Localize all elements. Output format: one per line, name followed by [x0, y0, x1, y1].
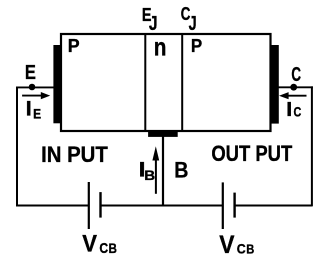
- svg-text:J: J: [189, 12, 197, 35]
- wire: collector lead: [278, 86, 313, 88]
- svg-text:E: E: [25, 60, 36, 83]
- svg-text:B: B: [109, 240, 117, 256]
- svg-text:P: P: [68, 34, 80, 56]
- wire: left vertical: [16, 87, 18, 207]
- svg-text:C: C: [99, 240, 108, 256]
- wire: emitter lead: [16, 86, 55, 88]
- wire: bottom left: [16, 205, 89, 207]
- base contact bar: [148, 131, 178, 137]
- svg-text:P: P: [191, 35, 203, 56]
- wire: base lead: [162, 136, 164, 206]
- svg-text:C: C: [237, 241, 246, 257]
- svg-text:B: B: [246, 242, 254, 257]
- svg-text:V: V: [219, 231, 234, 259]
- svg-text:B: B: [174, 158, 188, 183]
- battery V1 long plate: [88, 182, 90, 229]
- wire: bottom center: [101, 205, 223, 207]
- collector contact bar: [272, 45, 279, 124]
- svg-text:C: C: [291, 62, 301, 86]
- svg-text:I: I: [286, 99, 292, 121]
- svg-text:n: n: [154, 33, 167, 61]
- svg-text:I: I: [26, 97, 32, 120]
- node C dot: [290, 84, 297, 91]
- emitter contact bar: [53, 45, 60, 123]
- node E dot: [29, 84, 36, 91]
- emitter junction EJ line: [144, 35, 146, 130]
- svg-text:C: C: [294, 104, 302, 119]
- battery V1 short plate: [99, 192, 101, 218]
- current arrow IE: [22, 95, 41, 97]
- transistor body outline: [61, 34, 271, 131]
- svg-text:E: E: [33, 106, 41, 122]
- svg-text:V: V: [82, 230, 97, 257]
- wire: bottom right: [235, 205, 312, 207]
- battery V2 short plate: [233, 193, 235, 218]
- svg-text:OUT PUT: OUT PUT: [211, 143, 293, 167]
- current arrow IB: [155, 158, 157, 194]
- svg-text:B: B: [144, 169, 155, 184]
- wire: right vertical: [311, 86, 313, 206]
- svg-text:IN PUT: IN PUT: [41, 142, 108, 167]
- current arrow IC: [288, 95, 307, 97]
- battery V2 long plate: [222, 182, 224, 229]
- collector junction CJ line: [181, 35, 183, 130]
- svg-text:J: J: [149, 12, 158, 35]
